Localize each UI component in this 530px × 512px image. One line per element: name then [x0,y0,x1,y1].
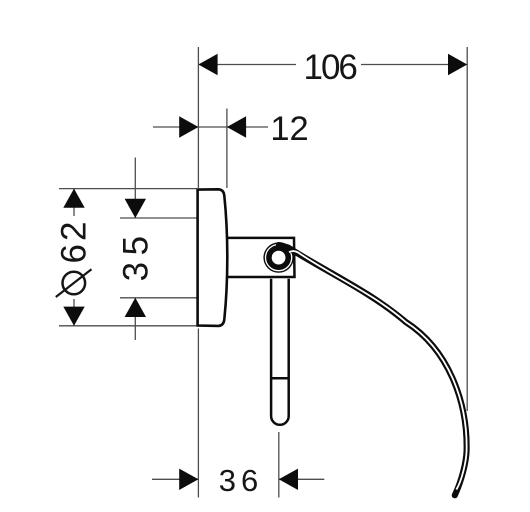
dimension line 35 upper segment [134,158,136,219]
arrow 106 left [198,54,217,75]
extension line plate bottom (d62) [59,325,198,327]
arrow d62 up [63,189,84,208]
arrow 35 up-pointing (below) [125,298,146,317]
diameter symbol drawn [56,269,92,297]
arrow 36 right [279,469,298,490]
extension line right (wire outermost) [466,47,468,411]
arrow d62 down [63,307,84,326]
dimension line d62 top segment [73,189,75,216]
extension line wall bottom (36) [197,329,199,498]
svg-text:62: 62 [55,219,94,264]
extension line plate front (12) [226,109,228,189]
arrow 106 right [448,54,467,75]
extension line plate top (d62) [59,188,197,190]
arrow 36 left [179,469,198,490]
svg-text:106: 106 [303,48,356,87]
arrow 12 right [227,116,246,137]
rod joint line [271,377,289,380]
dimension line 35 lower segment [134,298,136,340]
spring wire wrap arc over coil [278,245,288,249]
dimension line 36 right segment [279,478,325,480]
dimension line 106 right segment [361,64,467,66]
dimension line 106 left segment [198,64,296,66]
paper holder rod [271,279,289,425]
svg-text:35: 35 [116,229,155,281]
dimension line d62 bottom segment [73,299,75,326]
dimension line 36 left segment [152,478,198,480]
extension line 35 bottom [120,297,197,299]
pivot coil [263,242,293,272]
spring wire [279,245,467,495]
extension line 35 top [120,217,197,219]
extension line rod centre (36) [278,432,280,498]
wall plate side view [198,189,228,326]
svg-text:36: 36 [219,463,263,498]
arrow 12 left [179,116,198,137]
dimension line 12 [153,126,268,128]
arrow 35 down-pointing (above) [125,199,146,218]
extension line left (wall) top [197,47,199,188]
svg-text:12: 12 [270,110,308,148]
holder arm [226,238,295,277]
